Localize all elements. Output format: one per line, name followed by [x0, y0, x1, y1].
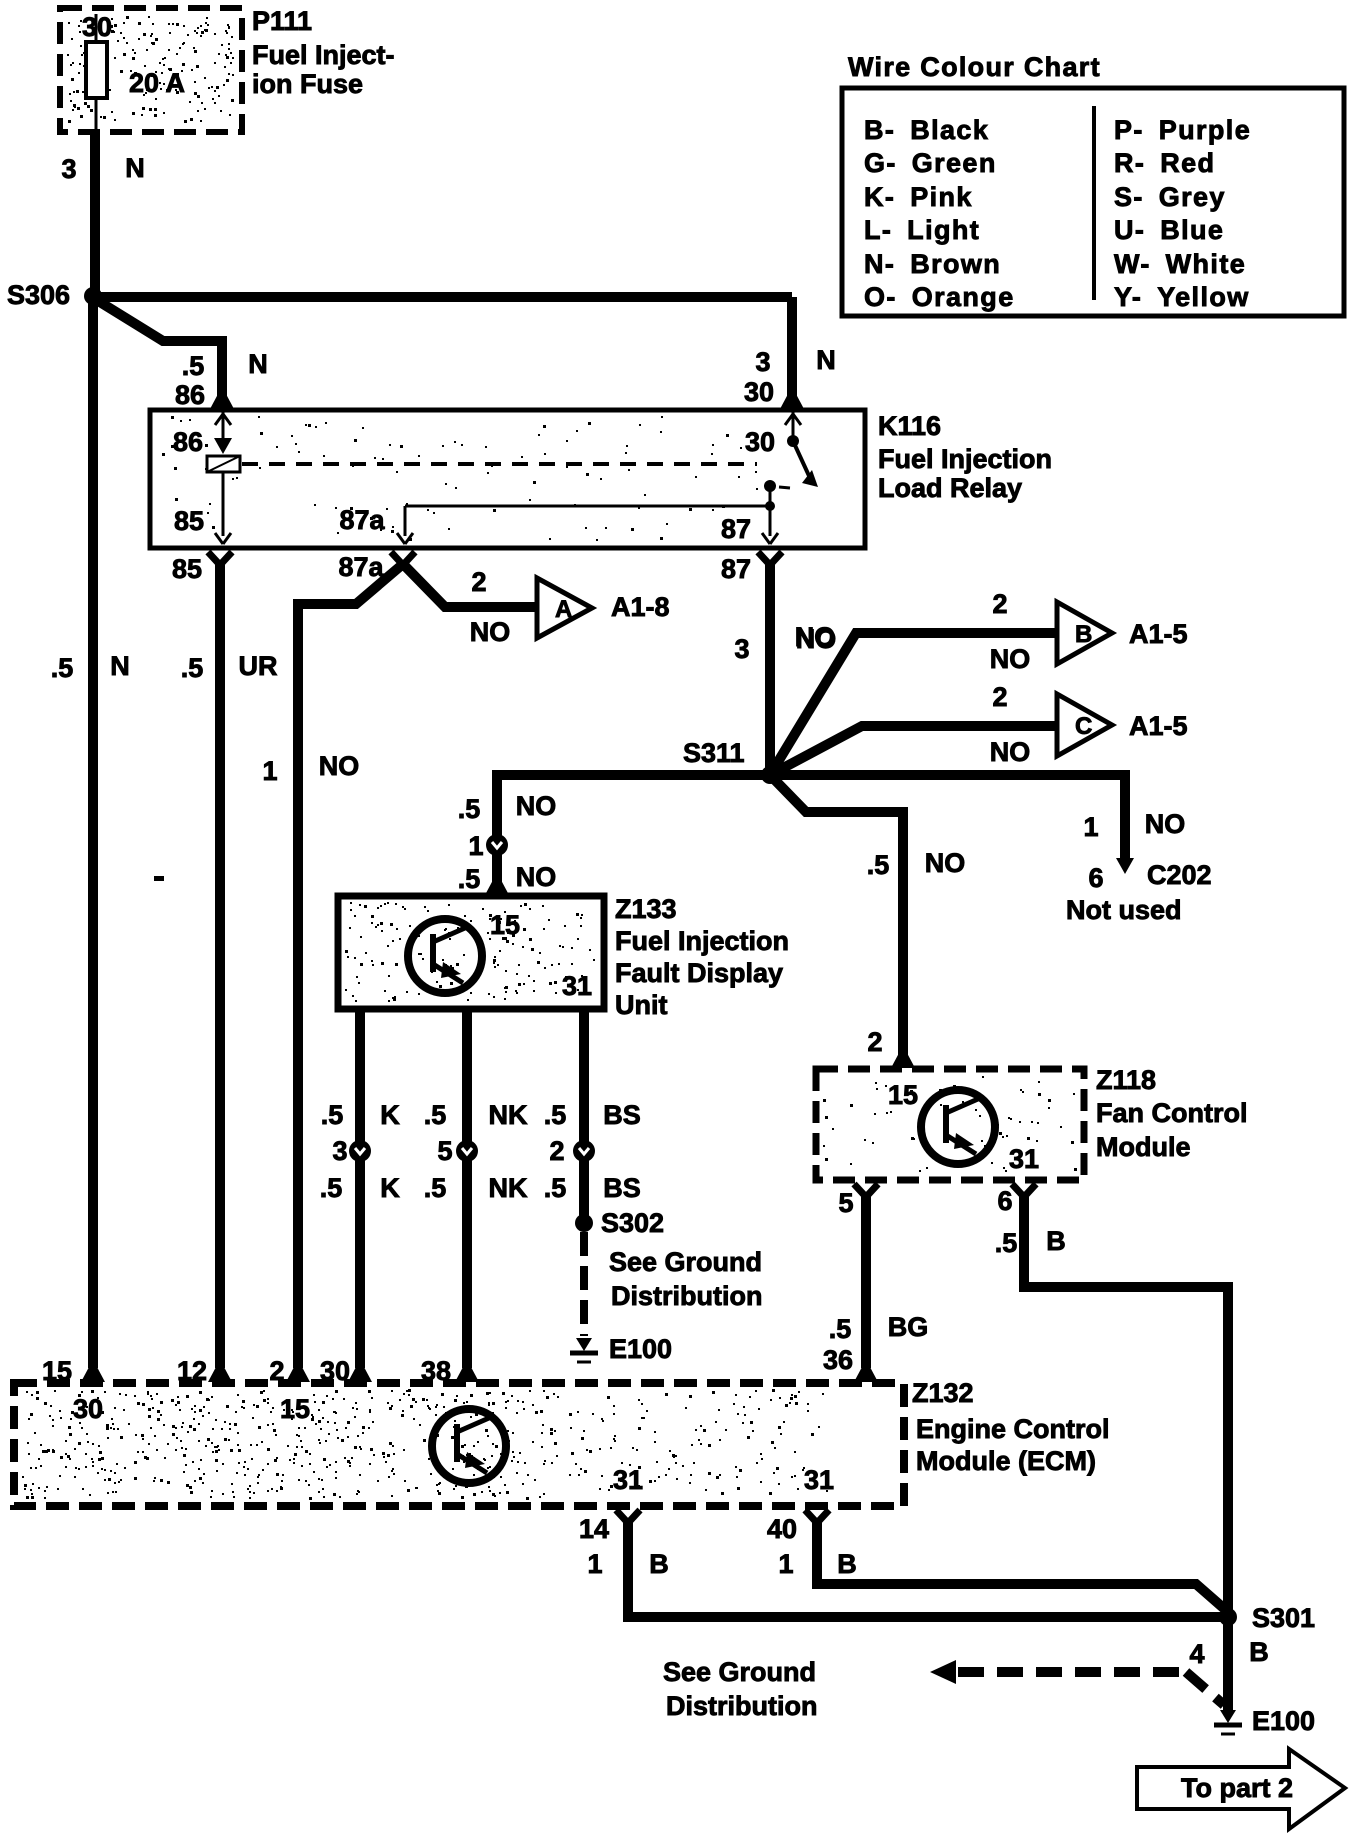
- svg-text:2: 2: [867, 1027, 882, 1057]
- svg-text:5: 5: [838, 1188, 853, 1218]
- svg-text:A1-8: A1-8: [611, 592, 670, 622]
- svg-text:1: 1: [262, 756, 277, 786]
- svg-text:30: 30: [745, 427, 775, 457]
- svg-text:BS: BS: [603, 1100, 641, 1130]
- svg-text:.5: .5: [458, 794, 481, 824]
- svg-text:P- Purple: P- Purple: [1114, 115, 1251, 145]
- svg-text:Wire Colour Chart: Wire Colour Chart: [848, 52, 1101, 82]
- svg-text:BS: BS: [603, 1173, 641, 1203]
- svg-text:.5: .5: [181, 653, 204, 683]
- svg-text:E100: E100: [609, 1334, 672, 1364]
- svg-text:Y- Yellow: Y- Yellow: [1114, 282, 1250, 312]
- svg-text:N: N: [125, 153, 145, 183]
- svg-text:.5: .5: [458, 864, 481, 894]
- svg-text:86: 86: [173, 427, 203, 457]
- svg-text:NO: NO: [319, 751, 360, 781]
- svg-text:B: B: [837, 1549, 857, 1579]
- svg-text:W- White: W- White: [1114, 249, 1246, 279]
- svg-text:NO: NO: [516, 791, 557, 821]
- svg-text:See Ground: See Ground: [609, 1247, 762, 1277]
- svg-text:85: 85: [174, 506, 204, 536]
- svg-text:A1-5: A1-5: [1129, 711, 1188, 741]
- svg-text:30: 30: [744, 377, 774, 407]
- svg-text:Fuel Inject-: Fuel Inject-: [252, 40, 395, 70]
- svg-text:14: 14: [579, 1514, 609, 1544]
- svg-text:S301: S301: [1252, 1603, 1315, 1633]
- svg-text:.5: .5: [51, 653, 74, 683]
- svg-text:6: 6: [1088, 863, 1103, 893]
- svg-text:Fuel Injection: Fuel Injection: [878, 444, 1052, 474]
- svg-text:20 A: 20 A: [129, 68, 185, 98]
- svg-text:87: 87: [721, 514, 751, 544]
- svg-text:K: K: [380, 1100, 400, 1130]
- svg-text:NO: NO: [925, 848, 966, 878]
- svg-text:.5: .5: [544, 1173, 567, 1203]
- svg-text:R- Red: R- Red: [1114, 148, 1215, 178]
- svg-text:UR: UR: [239, 651, 278, 681]
- svg-text:N: N: [816, 345, 836, 375]
- svg-text:40: 40: [767, 1514, 797, 1544]
- svg-text:Fan Control: Fan Control: [1096, 1098, 1247, 1128]
- svg-text:31: 31: [613, 1465, 643, 1495]
- svg-text:Not used: Not used: [1066, 895, 1182, 925]
- svg-text:S302: S302: [601, 1208, 664, 1238]
- svg-text:K- Pink: K- Pink: [864, 182, 973, 212]
- svg-text:Unit: Unit: [615, 990, 667, 1020]
- svg-text:A: A: [555, 596, 572, 623]
- svg-text:.5: .5: [867, 850, 890, 880]
- svg-text:2: 2: [471, 567, 486, 597]
- svg-text:86: 86: [175, 380, 205, 410]
- svg-text:N- Brown: N- Brown: [864, 249, 1001, 279]
- svg-text:6: 6: [997, 1186, 1012, 1216]
- svg-text:.5: .5: [829, 1314, 852, 1344]
- svg-text:1: 1: [468, 831, 483, 861]
- svg-text:2: 2: [992, 589, 1007, 619]
- svg-text:31: 31: [562, 971, 592, 1001]
- svg-text:P111: P111: [252, 6, 312, 36]
- svg-text:B: B: [1075, 621, 1092, 648]
- svg-text:NO: NO: [990, 644, 1031, 674]
- svg-text:Fuel Injection: Fuel Injection: [615, 926, 789, 956]
- svg-text:K116: K116: [878, 411, 941, 441]
- svg-text:3: 3: [734, 634, 749, 664]
- svg-text:Z132: Z132: [912, 1378, 974, 1408]
- svg-text:O- Orange: O- Orange: [864, 282, 1015, 312]
- svg-text:N: N: [248, 349, 268, 379]
- svg-text:36: 36: [823, 1345, 853, 1375]
- svg-text:2: 2: [549, 1136, 564, 1166]
- svg-text:4: 4: [1189, 1639, 1204, 1669]
- svg-text:Module: Module: [1096, 1132, 1191, 1162]
- svg-text:S311: S311: [683, 738, 745, 768]
- svg-text:31: 31: [1009, 1144, 1039, 1174]
- svg-text:C: C: [1075, 713, 1092, 740]
- svg-text:.5: .5: [182, 351, 205, 381]
- svg-text:E100: E100: [1252, 1706, 1315, 1736]
- svg-text:BG: BG: [888, 1312, 929, 1342]
- svg-text:Fault Display: Fault Display: [615, 958, 783, 988]
- svg-text:B: B: [649, 1549, 669, 1579]
- svg-text:N: N: [110, 651, 130, 681]
- svg-text:1: 1: [587, 1549, 602, 1579]
- svg-text:L- Light: L- Light: [864, 215, 980, 245]
- svg-text:3: 3: [755, 347, 770, 377]
- svg-text:ion Fuse: ion Fuse: [252, 69, 363, 99]
- svg-text:NO: NO: [470, 617, 511, 647]
- svg-text:Load Relay: Load Relay: [878, 473, 1022, 503]
- svg-text:1: 1: [1083, 812, 1098, 842]
- svg-text:Distribution: Distribution: [666, 1691, 817, 1721]
- svg-text:Distribution: Distribution: [611, 1281, 762, 1311]
- svg-text:See Ground: See Ground: [663, 1657, 816, 1687]
- svg-text:To part 2: To part 2: [1181, 1773, 1293, 1803]
- svg-text:.5: .5: [424, 1100, 447, 1130]
- svg-text:.5: .5: [321, 1100, 344, 1130]
- svg-text:15: 15: [280, 1394, 310, 1424]
- svg-text:Module (ECM): Module (ECM): [916, 1446, 1096, 1476]
- svg-text:2: 2: [992, 682, 1007, 712]
- svg-text:15: 15: [888, 1080, 918, 1110]
- svg-text:5: 5: [437, 1136, 452, 1166]
- svg-text:15: 15: [490, 910, 520, 940]
- svg-text:B- Black: B- Black: [864, 115, 989, 145]
- svg-text:Z118: Z118: [1096, 1065, 1156, 1095]
- svg-text:NK: NK: [489, 1100, 528, 1130]
- svg-text:NO: NO: [795, 622, 836, 652]
- svg-text:U- Blue: U- Blue: [1114, 215, 1224, 245]
- svg-text:Z133: Z133: [615, 894, 677, 924]
- svg-text:87a: 87a: [338, 552, 384, 582]
- svg-text:31: 31: [804, 1465, 834, 1495]
- svg-text:NK: NK: [489, 1173, 528, 1203]
- svg-text:NO: NO: [990, 737, 1031, 767]
- svg-text:B: B: [1046, 1226, 1066, 1256]
- svg-text:87: 87: [721, 554, 751, 584]
- svg-text:.5: .5: [995, 1228, 1018, 1258]
- svg-text:.5: .5: [424, 1173, 447, 1203]
- svg-text:.5: .5: [544, 1100, 567, 1130]
- svg-text:.5: .5: [320, 1173, 343, 1203]
- svg-text:C202: C202: [1147, 860, 1212, 890]
- svg-text:87a: 87a: [339, 505, 385, 535]
- svg-text:S306: S306: [7, 280, 70, 310]
- svg-text:B: B: [1249, 1637, 1269, 1667]
- svg-text:NO: NO: [1145, 809, 1186, 839]
- svg-text:K: K: [380, 1173, 400, 1203]
- svg-text:1: 1: [778, 1549, 793, 1579]
- svg-text:G- Green: G- Green: [864, 148, 997, 178]
- svg-text:A1-5: A1-5: [1129, 619, 1188, 649]
- svg-text:85: 85: [172, 554, 202, 584]
- svg-text:3: 3: [61, 154, 76, 184]
- svg-text:3: 3: [332, 1136, 347, 1166]
- svg-text:NO: NO: [516, 862, 557, 892]
- svg-text:30: 30: [73, 1394, 103, 1424]
- svg-text:Engine Control: Engine Control: [916, 1414, 1109, 1444]
- svg-text:30: 30: [82, 12, 112, 42]
- svg-text:S- Grey: S- Grey: [1114, 182, 1226, 212]
